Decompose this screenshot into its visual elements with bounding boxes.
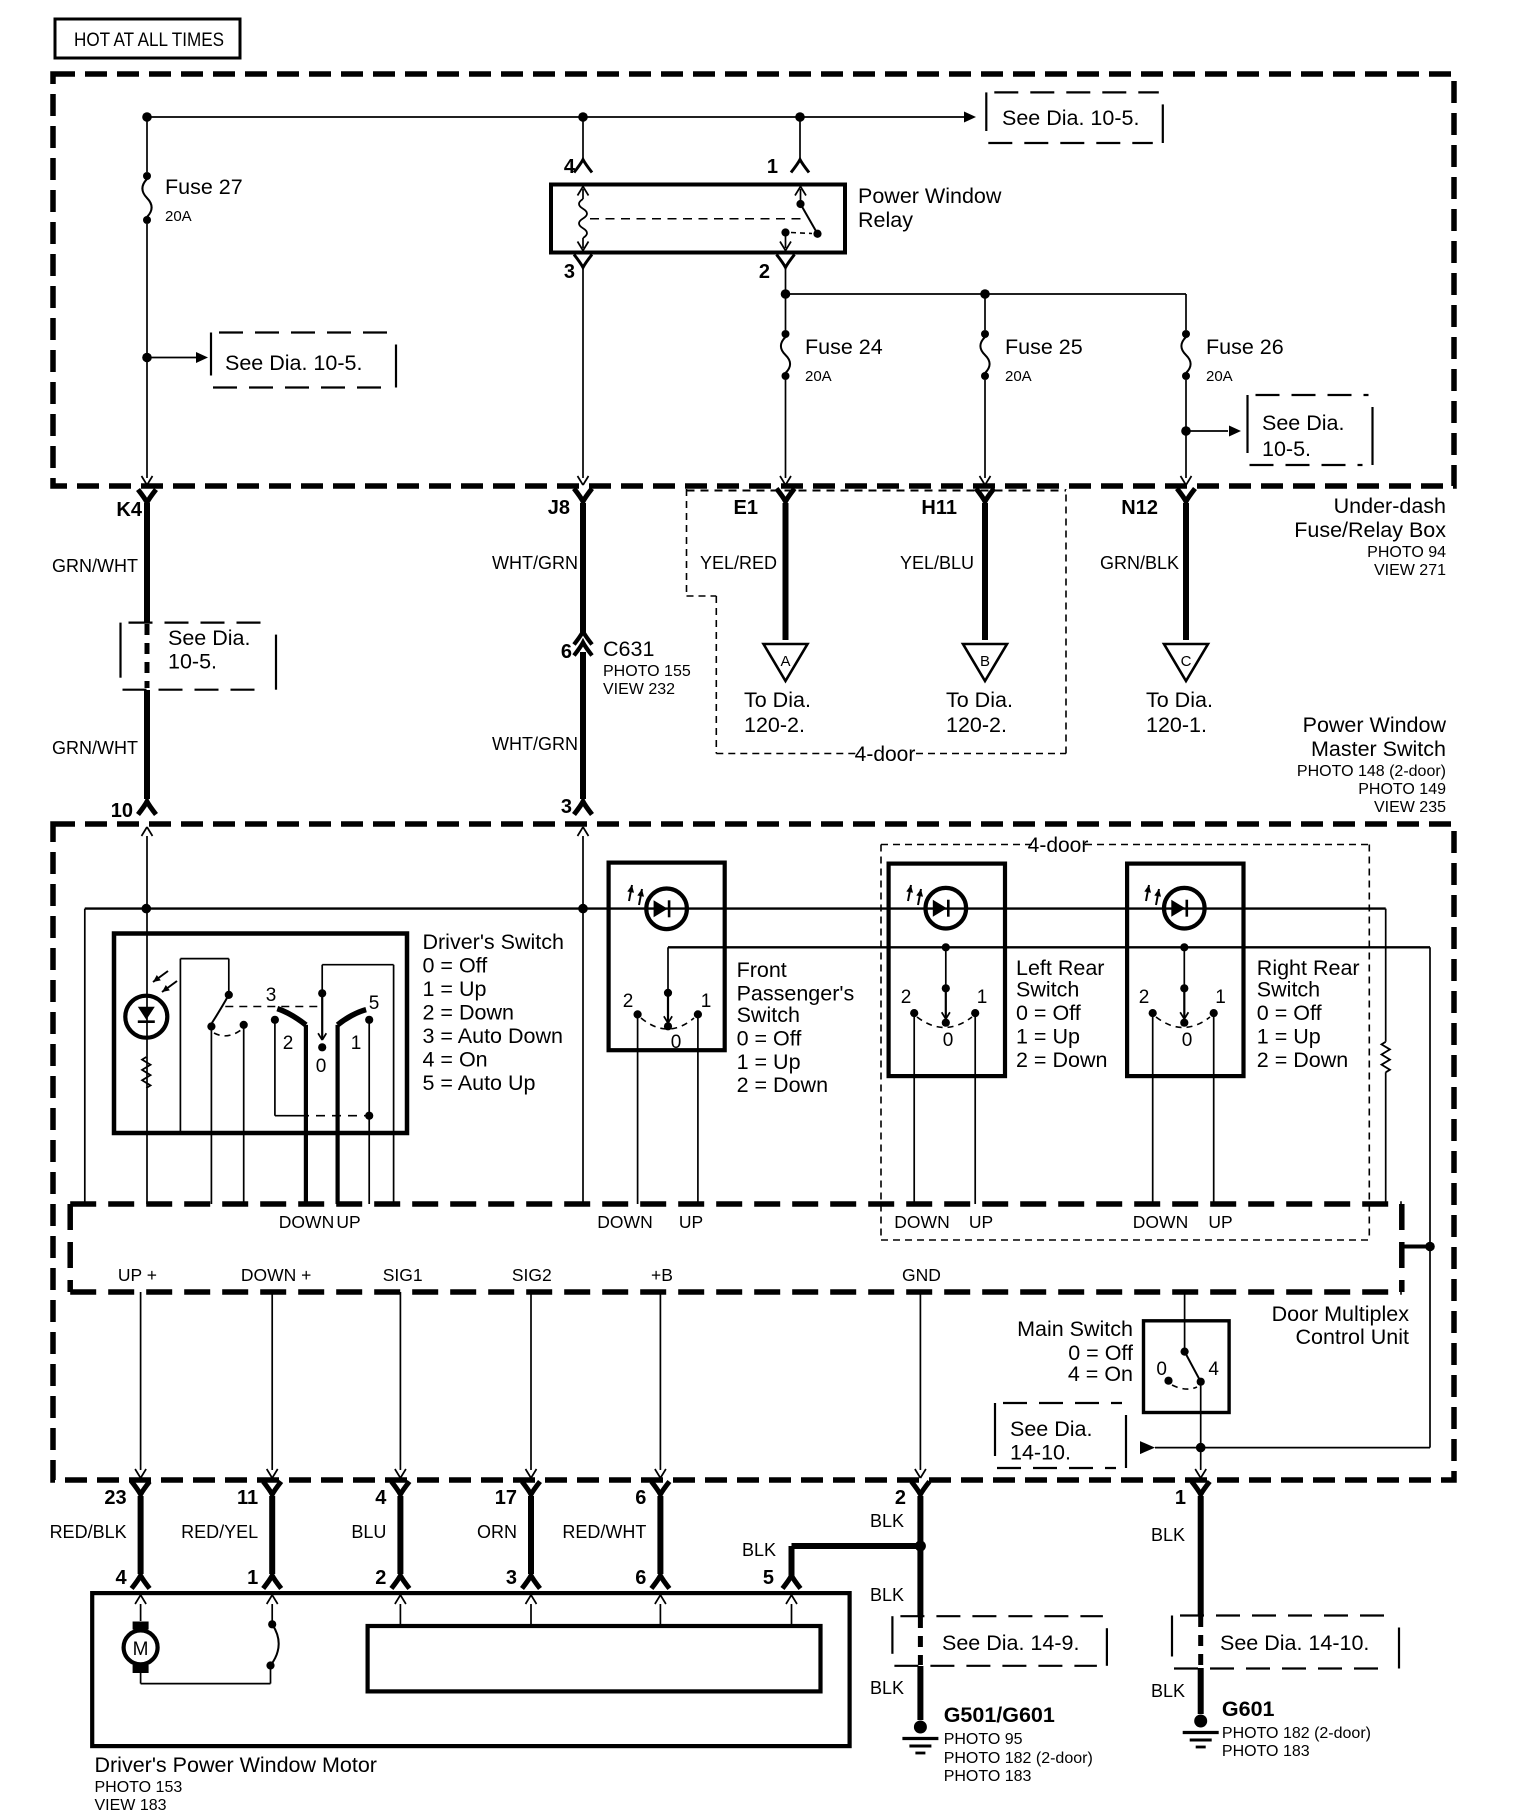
driver sw2 frame (318, 965, 394, 1204)
front passenger switch box (609, 863, 725, 1051)
fuse F27 Fuse 27 20A (142, 172, 242, 225)
svg-text:PHOTO 148 (2-door): PHOTO 148 (2-door) (1297, 763, 1446, 780)
svg-text:1: 1 (977, 987, 988, 1008)
main switch arm (1185, 1352, 1205, 1386)
fp pos0 label (671, 1032, 682, 1053)
svg-text:Right Rear: Right Rear (1257, 956, 1360, 980)
connector pin 3 (bottom) (506, 1567, 540, 1589)
wire lr down pin (913, 1013, 915, 1204)
svg-text:4: 4 (375, 1487, 387, 1509)
wire up contact1 drop (365, 1020, 373, 1120)
LED D4 (right rear) (1144, 885, 1204, 929)
connector pin 5 (763, 1567, 801, 1589)
svg-text:BLK: BLK (1151, 1525, 1185, 1545)
svg-text:Switch: Switch (1016, 978, 1079, 1002)
label Right Rear Switch legend (1257, 956, 1360, 1072)
node rail-pin4 (578, 112, 588, 122)
driver pos5 label (369, 993, 380, 1014)
svg-text:G601: G601 (1222, 1697, 1275, 1721)
control unit stub to rail2 (1402, 1242, 1435, 1252)
wire K4 GRN/WHT lower (52, 690, 147, 799)
wire inner pin3 lead (530, 1604, 532, 1626)
wire branch to callout (147, 357, 196, 359)
relay switch dashed contact (791, 233, 812, 234)
wire J8 WHT/GRN upper (492, 503, 583, 633)
wire rr down pin (1152, 1013, 1154, 1204)
right rear switch box (1127, 864, 1243, 1077)
svg-text:Fuse 24: Fuse 24 (805, 335, 883, 359)
lr pos0 label (943, 1030, 954, 1051)
relay coil (579, 189, 587, 248)
fuse F24 Fuse 24 20A (781, 330, 883, 385)
label HOT AT ALL TIMES (55, 19, 240, 58)
svg-text:3: 3 (564, 261, 575, 283)
wire GND BLK lower (870, 1666, 920, 1720)
svg-text:DOWN +: DOWN + (241, 1265, 312, 1285)
relay coil arrow top (578, 187, 589, 196)
label To Dia. 120-2. (E1) (744, 688, 811, 737)
svg-text:Driver's Power Window Motor: Driver's Power Window Motor (95, 1753, 377, 1777)
callout See Dia. 14-10 (G601) (1172, 1616, 1399, 1669)
svg-text:See Dia. 14-10.: See Dia. 14-10. (1220, 1631, 1369, 1655)
pin 3 label (564, 261, 575, 283)
wire driver feed (146, 836, 148, 1204)
arrow SIG2 exits box (526, 1469, 537, 1478)
connector pin 2 (bottom) (375, 1567, 409, 1589)
svg-text:H11: H11 (921, 497, 957, 519)
pin 3 label (J8) (561, 796, 572, 818)
wire main switch output (1200, 1382, 1202, 1470)
connector E1 (734, 489, 795, 520)
node rail1-J8 (578, 904, 588, 914)
wire motor pin4 lead (140, 1604, 142, 1621)
wire SIG1 to connector (399, 1292, 401, 1470)
svg-text:0: 0 (316, 1056, 327, 1077)
svg-text:PHOTO 182 (2-door): PHOTO 182 (2-door) (944, 1750, 1093, 1767)
svg-text:1: 1 (1215, 987, 1226, 1008)
wire F26 down (1185, 380, 1187, 478)
wire rail1 right drop upper (1385, 909, 1387, 1042)
svg-text:GRN/WHT: GRN/WHT (52, 738, 138, 758)
wire motor bottom lead (141, 1661, 275, 1683)
arrow H11 exits box (980, 476, 991, 485)
svg-text:B: B (980, 653, 990, 670)
svg-text:3 = Auto Down: 3 = Auto Down (423, 1024, 563, 1048)
svg-text:K4: K4 (116, 499, 142, 521)
svg-text:BLK: BLK (870, 1585, 904, 1605)
node rail2-lr (942, 943, 950, 951)
wire up contact drop to unit (368, 1116, 370, 1204)
connector H11 (921, 489, 994, 520)
wire pin3 down (582, 269, 584, 478)
lr dashed arc (917, 1017, 972, 1028)
rr contact up (1210, 1009, 1218, 1017)
relay U1 Power Window Relay box (551, 184, 1002, 253)
svg-text:DOWN: DOWN (894, 1212, 949, 1232)
svg-text:1: 1 (1175, 1487, 1186, 1509)
pin 1 label (767, 156, 778, 178)
rr center contact (1180, 988, 1188, 1027)
rr contact down (1149, 1009, 1157, 1017)
connector pin4 (574, 160, 592, 173)
svg-text:1: 1 (247, 1567, 258, 1589)
svg-text:PHOTO 155: PHOTO 155 (603, 663, 691, 680)
svg-text:1 = Up: 1 = Up (1257, 1025, 1321, 1049)
wire UP+ to connector (140, 1292, 142, 1470)
relay pin2 contact (781, 228, 789, 248)
svg-text:BLK: BLK (742, 1540, 776, 1560)
node main-output (1196, 1443, 1206, 1453)
wire sw1 pin a (210, 1027, 212, 1205)
svg-text:See Dia.: See Dia. (1010, 1417, 1092, 1441)
lr contact down (910, 1009, 918, 1017)
wire K4 through callout (145, 624, 150, 688)
svg-text:A: A (780, 653, 790, 670)
svg-text:See Dia. 14-9.: See Dia. 14-9. (942, 1631, 1079, 1655)
svg-text:J8: J8 (548, 497, 570, 519)
svg-text:Under-dash: Under-dash (1334, 494, 1446, 518)
driver up rocker (338, 1010, 367, 1025)
svg-text:0 = Off: 0 = Off (1016, 1001, 1081, 1025)
driver center contact (318, 993, 326, 1051)
resistor (driver LED) (142, 1057, 150, 1088)
wire fp down pin (637, 1014, 639, 1204)
label BLK (gnd mid) (870, 1585, 904, 1605)
ground G601 (1183, 1715, 1219, 1748)
node rail2-rr (1180, 943, 1188, 951)
callout See Dia. 14-9 (892, 1616, 1107, 1666)
svg-text:PHOTO 183: PHOTO 183 (944, 1768, 1032, 1785)
driver pos1 label (351, 1033, 362, 1054)
svg-text:20A: 20A (165, 208, 192, 225)
svg-text:Control Unit: Control Unit (1295, 1325, 1409, 1349)
motor M1 (124, 1622, 158, 1674)
4-door region top edge (fuse box) (687, 490, 1067, 492)
label BLK (pin5) (742, 1540, 776, 1560)
wire K4 GRN/WHT upper (52, 503, 147, 622)
arrow motor pin entry x=791.5 (786, 1595, 797, 1604)
label Front Passenger's Switch legend (737, 958, 855, 1097)
arrow main output exits box (1195, 1469, 1206, 1478)
svg-text:RED/WHT: RED/WHT (562, 1522, 646, 1542)
svg-text:UP: UP (1208, 1212, 1232, 1232)
svg-text:VIEW 271: VIEW 271 (1374, 562, 1446, 579)
svg-text:Front: Front (737, 958, 787, 982)
wire RED/BLK (50, 1496, 141, 1574)
wire BLK link pin5 (792, 1546, 920, 1576)
label To Dia. 120-2. (H11) (946, 688, 1013, 737)
wire DOWN output (304, 1025, 308, 1204)
driver's power window motor box (92, 1593, 849, 1746)
control unit pin labels (118, 1265, 941, 1285)
svg-text:GND: GND (902, 1265, 941, 1285)
arrow 10-wire enters box (142, 827, 153, 836)
svg-text:Left Rear: Left Rear (1016, 956, 1104, 980)
svg-text:3: 3 (561, 796, 572, 818)
offpage triangle B (963, 644, 1007, 681)
svg-text:5 = Auto Up: 5 = Auto Up (423, 1071, 536, 1095)
motor commutator arc (268, 1620, 279, 1665)
node rail1-driver (142, 904, 152, 914)
wire motor pin1 lead (271, 1604, 273, 1624)
svg-text:4-door: 4-door (855, 743, 916, 766)
wire J8 internal (582, 836, 584, 1204)
wire E1 YEL/RED (700, 503, 786, 640)
wire main switch feed (1184, 1292, 1186, 1352)
svg-text:WHT/GRN: WHT/GRN (492, 734, 578, 754)
fp center drop (664, 947, 672, 997)
wire DOWN+ to connector (271, 1292, 273, 1470)
svg-text:To Dia.: To Dia. (946, 688, 1013, 712)
arrow motor pin entry x=272.2 (267, 1595, 278, 1604)
wire ORN (477, 1496, 531, 1574)
4-door region (fuse box) (687, 489, 1067, 766)
driver sw1 frame (180, 959, 233, 1133)
connector pin1 (791, 160, 809, 173)
svg-text:20A: 20A (1005, 368, 1032, 385)
svg-text:5: 5 (369, 993, 380, 1014)
svg-text:VIEW 232: VIEW 232 (603, 681, 675, 698)
main switch contact 0 (1164, 1377, 1172, 1385)
wire inner pin2 lead (399, 1604, 401, 1626)
svg-text:4: 4 (1208, 1359, 1219, 1380)
svg-text:4 = On: 4 = On (423, 1048, 488, 1072)
svg-text:Switch: Switch (737, 1003, 800, 1027)
wire +B to connector (659, 1292, 661, 1470)
driver's switch box (114, 934, 407, 1134)
svg-text:UP: UP (969, 1212, 993, 1232)
label To Dia. 120-1. (N12) (1146, 688, 1213, 737)
rr center drop (1180, 947, 1188, 992)
svg-text:1: 1 (351, 1033, 362, 1054)
connector C631 (561, 632, 691, 699)
svg-text:GRN/BLK: GRN/BLK (1100, 553, 1179, 573)
wire down contact2 drop (274, 1020, 276, 1116)
driver sw1 arm (207, 995, 229, 1031)
svg-text:Main Switch: Main Switch (1017, 1317, 1133, 1341)
lr center contact (942, 988, 950, 1027)
driver up contact1 (365, 1016, 373, 1024)
wire rail1 left drop (84, 909, 86, 1204)
main switch dashed throw (1172, 1385, 1197, 1389)
callout See Dia. 10-5 (left) (211, 333, 396, 388)
svg-text:PHOTO 183: PHOTO 183 (1222, 1743, 1310, 1760)
svg-text:4: 4 (115, 1567, 127, 1589)
svg-text:120-2.: 120-2. (946, 713, 1007, 737)
driver down rocker (277, 1009, 306, 1025)
connector pin3 (J8) (574, 802, 592, 815)
relay coil arrow bottom (578, 242, 589, 251)
svg-text:2 = Down: 2 = Down (1016, 1048, 1107, 1072)
arrow DOWN+ exits box (267, 1469, 278, 1478)
fp center contact (664, 993, 672, 1031)
lr contact up (971, 1009, 979, 1017)
relay internal dashed link (590, 218, 807, 220)
wire H11 YEL/BLU (900, 503, 985, 640)
fp pos2 label (623, 991, 634, 1012)
connector pin 6 (top) (635, 1482, 669, 1510)
wire auto cross-link (275, 1115, 369, 1117)
label Driver's Power Window Motor (95, 1753, 377, 1814)
svg-text:2: 2 (759, 261, 770, 283)
svg-text:BLK: BLK (1151, 1681, 1185, 1701)
wire K4 feed upper (146, 117, 148, 172)
svg-text:3: 3 (266, 985, 277, 1006)
svg-text:PHOTO 153: PHOTO 153 (95, 1779, 183, 1796)
driver sw1 contact (240, 1021, 248, 1029)
wire GND BLK upper (917, 1496, 923, 1616)
svg-text:20A: 20A (805, 368, 832, 385)
connector pin 2 (GND) (895, 1482, 930, 1510)
svg-text:2: 2 (1139, 987, 1150, 1008)
arrow motor pin entry x=660.4 (655, 1595, 666, 1604)
arrow GND exits box (915, 1469, 926, 1478)
svg-text:2 = Down: 2 = Down (737, 1073, 828, 1097)
node rail-pin1 (795, 112, 805, 122)
wire rr up pin (1213, 1013, 1215, 1204)
svg-text:Fuse/Relay Box: Fuse/Relay Box (1294, 518, 1446, 542)
label G601 (1222, 1697, 1371, 1760)
svg-text:Fuse 25: Fuse 25 (1005, 335, 1083, 359)
svg-text:10-5.: 10-5. (1262, 437, 1311, 461)
4-door region (master switch) (881, 834, 1369, 1240)
wire rail2 (signal rail) (668, 946, 1430, 948)
svg-text:0: 0 (671, 1032, 682, 1053)
svg-text:0: 0 (1156, 1359, 1167, 1380)
svg-text:2: 2 (283, 1033, 294, 1054)
label DOWN UP (fp) (597, 1212, 703, 1232)
label Door Multiplex Control Unit (1272, 1302, 1410, 1349)
main switch pivot (1181, 1348, 1189, 1356)
fp dashed arc (641, 1018, 694, 1029)
wire relay pin1 stub (799, 117, 801, 158)
svg-text:0 = Off: 0 = Off (423, 954, 488, 978)
driver pos0 label (316, 1056, 327, 1077)
callout See Dia. 10-5 (K4) (121, 623, 277, 690)
arrow +B exits box (655, 1469, 666, 1478)
svg-text:DOWN: DOWN (279, 1212, 334, 1232)
svg-text:ORN: ORN (477, 1522, 517, 1542)
wire sw1 pin b (243, 1025, 245, 1204)
svg-text:RED/BLK: RED/BLK (50, 1522, 127, 1542)
svg-text:Switch: Switch (1257, 978, 1320, 1002)
arrow to See Dia. 10-5 (top) (964, 112, 976, 123)
lr pos1 label (977, 987, 988, 1008)
svg-text:BLU: BLU (351, 1522, 386, 1542)
node K4 branch (142, 353, 152, 363)
fp pos1 label (701, 991, 712, 1012)
wire callout link (1155, 1447, 1430, 1449)
wire pin2 down (785, 269, 787, 294)
connector pin 4 (bottom) (115, 1567, 149, 1589)
svg-text:2: 2 (375, 1567, 386, 1589)
svg-text:6: 6 (561, 641, 572, 663)
node BLK junction (915, 1541, 926, 1552)
wire fp up pin (697, 1014, 699, 1204)
svg-text:PHOTO 94: PHOTO 94 (1367, 544, 1446, 561)
svg-text:UP: UP (679, 1212, 703, 1232)
offpage triangle C (1164, 644, 1208, 681)
wire N12 GRN/BLK (1100, 503, 1186, 640)
svg-text:6: 6 (635, 1567, 646, 1589)
svg-text:120-2.: 120-2. (744, 713, 805, 737)
resistor (right) (1382, 1042, 1390, 1073)
wire F24 down (785, 380, 787, 478)
driver pos2 label (283, 1033, 294, 1054)
svg-text:+B: +B (651, 1265, 673, 1285)
svg-text:PHOTO 95: PHOTO 95 (944, 1731, 1023, 1748)
wire G601 through callout (1198, 1616, 1203, 1668)
wire UP output (336, 1025, 340, 1204)
ground G501/G601 (902, 1721, 938, 1754)
svg-text:1 = Up: 1 = Up (737, 1050, 801, 1074)
fuse F26 Fuse 26 20A (1181, 330, 1283, 385)
connector K4 (116, 490, 156, 522)
svg-text:2 = Down: 2 = Down (1257, 1048, 1348, 1072)
svg-text:Power Window: Power Window (858, 184, 1002, 208)
svg-text:1: 1 (701, 991, 712, 1012)
svg-text:4: 4 (564, 156, 576, 178)
svg-text:PHOTO 182 (2-door): PHOTO 182 (2-door) (1222, 1725, 1371, 1742)
svg-text:Fuse 26: Fuse 26 (1206, 335, 1284, 359)
svg-text:11: 11 (237, 1487, 258, 1509)
arrow motor pin entry x=531 (526, 1595, 537, 1604)
svg-text:M: M (133, 1639, 149, 1660)
lr center drop (942, 947, 950, 992)
svg-text:UP: UP (336, 1212, 360, 1232)
main switch box (1144, 1321, 1230, 1413)
connector J8 (548, 489, 592, 520)
svg-text:Relay: Relay (858, 208, 913, 232)
label G501/G601 (944, 1703, 1093, 1785)
svg-text:1 = Up: 1 = Up (1016, 1025, 1080, 1049)
rr pos2 label (1139, 987, 1150, 1008)
wire BLU (351, 1496, 400, 1574)
wire G601 BLK upper (1151, 1496, 1201, 1615)
arrow N12 exits box (1181, 476, 1192, 485)
svg-text:C631: C631 (603, 637, 654, 661)
svg-text:RED/YEL: RED/YEL (181, 1522, 258, 1542)
connector pin2 (777, 255, 795, 268)
motor control inner box (368, 1626, 821, 1691)
svg-text:G501/G601: G501/G601 (944, 1703, 1055, 1727)
svg-text:120-1.: 120-1. (1146, 713, 1207, 737)
svg-text:20A: 20A (1206, 368, 1233, 385)
svg-text:See Dia.: See Dia. (1262, 411, 1344, 435)
wire rail2 right drop (1429, 947, 1431, 1447)
node bus-F24 (781, 289, 791, 299)
svg-text:10-5.: 10-5. (168, 650, 217, 674)
fuse F25 Fuse 25 20A (980, 330, 1082, 385)
arrow to See Dia. 10-5 (fuse26) (1229, 426, 1241, 437)
connector pin 17 (top) (495, 1482, 540, 1510)
svg-text:4 = On: 4 = On (1068, 1362, 1133, 1386)
pin 2 label (759, 261, 770, 283)
wire G601 BLK lower (1151, 1668, 1201, 1714)
main switch pos labels (1156, 1359, 1219, 1380)
svg-text:See Dia. 10-5.: See Dia. 10-5. (225, 351, 362, 375)
label DOWN UP (rr) (1133, 1212, 1233, 1232)
connector pin 11 (top) (237, 1482, 281, 1510)
svg-text:E1: E1 (734, 497, 758, 519)
driver down contact2 (271, 1016, 279, 1024)
LED D3 (left rear) (906, 885, 966, 929)
driver down dashed pos3 (225, 1006, 322, 1008)
rr dashed arc (1156, 1017, 1210, 1028)
connector pin 1 (bottom) (247, 1567, 281, 1589)
svg-text:14-10.: 14-10. (1010, 1441, 1071, 1465)
power window master switch box (dashed) (53, 824, 1454, 1480)
